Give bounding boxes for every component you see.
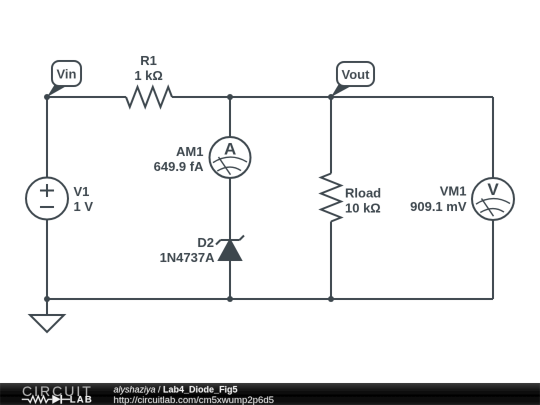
svg-text:A: A <box>224 139 236 158</box>
wire right branch lower <box>492 220 494 299</box>
resistor Rload <box>321 174 341 222</box>
svg-text:1N4737A: 1N4737A <box>160 250 216 265</box>
diode D2 (zener) <box>216 236 244 245</box>
svg-text:http://circuitlab.com/cm5xwump: http://circuitlab.com/cm5xwump2p6d5 <box>114 395 275 405</box>
svg-text:10 kΩ: 10 kΩ <box>345 201 381 216</box>
resistor R1 <box>126 87 172 107</box>
node Vin dot <box>44 94 50 100</box>
wire bottom rail <box>47 298 493 300</box>
svg-text:D2: D2 <box>197 235 214 250</box>
node Vin flag <box>47 61 81 97</box>
wire Rload lower <box>330 222 332 300</box>
svg-text:VM1: VM1 <box>440 183 467 198</box>
svg-text:649.9 fA: 649.9 fA <box>154 159 204 174</box>
junction dot Rload bottom <box>328 296 334 302</box>
wire right branch upper <box>492 97 494 178</box>
ground <box>46 299 48 315</box>
wire left branch upper <box>46 97 48 178</box>
svg-text:R1: R1 <box>140 53 157 68</box>
svg-text:909.1 mV: 909.1 mV <box>410 199 467 214</box>
svg-text:V: V <box>487 180 499 199</box>
wire AM1 branch upper <box>229 97 231 137</box>
junction dot ground <box>44 296 50 302</box>
wire top rail right <box>172 96 493 98</box>
junction dot AM1 top <box>227 94 233 100</box>
svg-text:1 V: 1 V <box>74 199 94 214</box>
svg-text:1 kΩ: 1 kΩ <box>134 68 163 83</box>
wire left branch lower <box>46 220 48 300</box>
voltmeter VM1 <box>472 178 514 220</box>
wire D2 to bottom <box>229 260 231 299</box>
node Vout dot <box>328 94 334 100</box>
svg-text:Vin: Vin <box>57 67 77 82</box>
svg-text:alyshaziya / Lab4_Diode_Fig5: alyshaziya / Lab4_Diode_Fig5 <box>114 385 238 395</box>
node Vout flag <box>331 62 374 97</box>
CircuitLab logo <box>22 383 93 405</box>
junction dot D2 bottom <box>227 296 233 302</box>
svg-text:V1: V1 <box>74 184 90 199</box>
svg-text:Vout: Vout <box>342 67 371 82</box>
svg-text:Rload: Rload <box>345 186 381 201</box>
wire Rload branch upper <box>330 97 332 174</box>
wire AM1 to D2 <box>229 178 231 240</box>
voltage source V1 <box>26 178 68 220</box>
svg-text:LAB: LAB <box>70 395 93 405</box>
wire top rail left <box>47 96 126 98</box>
ammeter AM1 <box>210 137 251 178</box>
svg-text:AM1: AM1 <box>176 144 203 159</box>
